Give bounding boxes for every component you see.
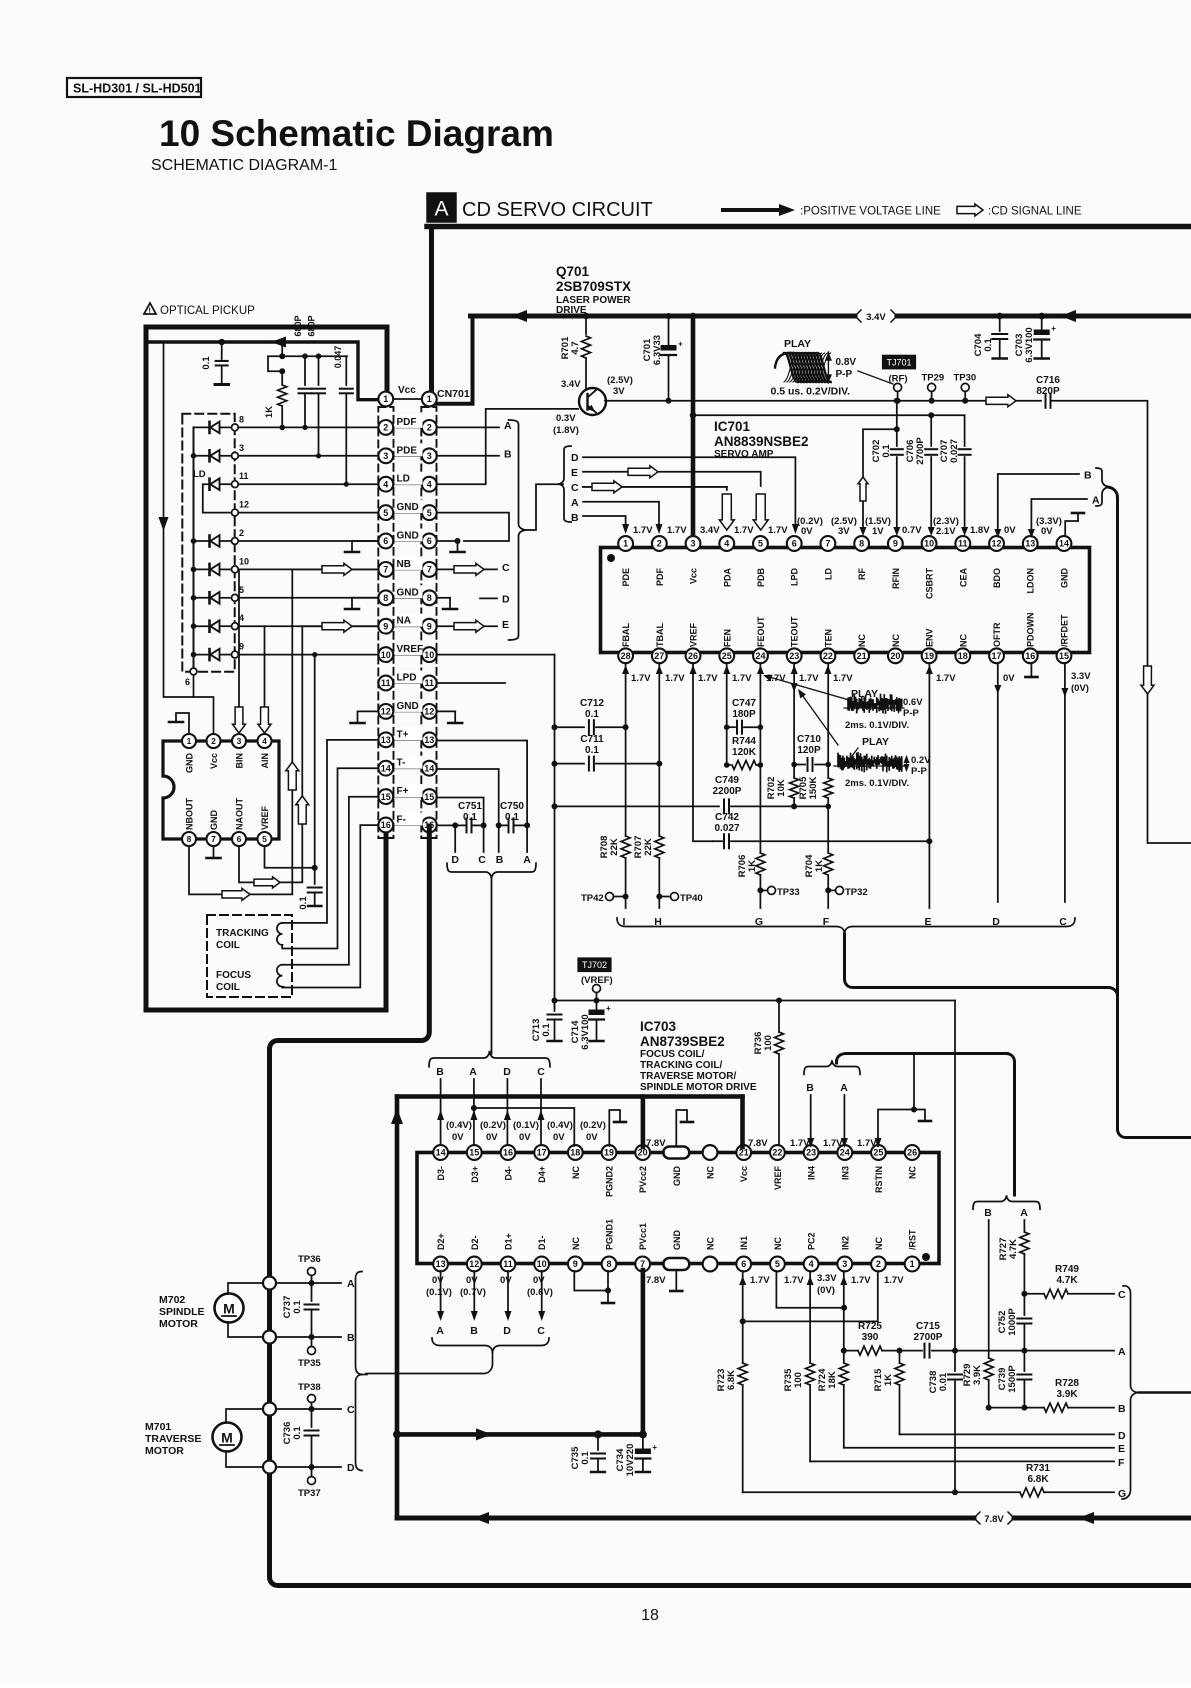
wire diode row 4 to CN701	[191, 613, 379, 632]
svg-text:0V: 0V	[466, 1275, 478, 1286]
ic pd pin 6 NAOUT	[232, 798, 246, 846]
test point TP33	[760, 886, 799, 898]
wire NB row left	[292, 568, 378, 570]
svg-text:12: 12	[381, 707, 391, 717]
svg-text:Vcc: Vcc	[689, 568, 699, 584]
wire CN701 pin12 GND left + ground	[351, 711, 379, 723]
ic IC701 pin 19 ENV	[922, 628, 937, 663]
terminal RF	[889, 374, 908, 401]
svg-text:P-P: P-P	[911, 766, 928, 777]
svg-text:0.1: 0.1	[292, 1426, 303, 1440]
capacitor 680P a	[293, 315, 312, 430]
svg-text:16: 16	[1025, 651, 1035, 661]
svg-text:26: 26	[688, 651, 698, 661]
wire F+ right down to C tap	[437, 798, 484, 826]
svg-text:Vcc: Vcc	[209, 753, 219, 769]
connector CN701 dashed outline right	[421, 407, 436, 838]
svg-text:IN1: IN1	[739, 1236, 749, 1250]
svg-text:SPINDLE MOTOR DRIVE: SPINDLE MOTOR DRIVE	[640, 1082, 757, 1093]
svg-text:0.8V: 0.8V	[836, 357, 857, 368]
motor M701 label	[145, 1421, 201, 1457]
svg-text:5: 5	[758, 539, 763, 549]
svg-text:B: B	[347, 1332, 355, 1344]
wire F- row right	[437, 822, 467, 828]
wire A column R727	[1023, 1220, 1025, 1232]
svg-text:11: 11	[239, 471, 249, 481]
svg-text:19: 19	[924, 651, 934, 661]
cd signal arrow NA right	[454, 620, 484, 632]
svg-text:TP36: TP36	[298, 1254, 321, 1265]
brace DCBA to bundle	[447, 863, 536, 1054]
svg-text:T-: T-	[397, 758, 406, 769]
title 10 Schematic Diagram	[159, 113, 554, 154]
svg-text:NC: NC	[706, 1166, 716, 1179]
connector CN701 dashed outline left	[378, 407, 393, 838]
ic IC701 pin 6 LPD	[787, 536, 802, 586]
wire 3.4V rail	[471, 314, 1191, 319]
svg-text:D4+: D4+	[537, 1166, 547, 1183]
connector CN701 pin 4 row	[378, 472, 436, 492]
resistor R728 3.9K	[989, 1378, 1114, 1412]
wire T- left to tracking coil bottom	[282, 768, 378, 948]
capacitor C751 0.1	[458, 801, 487, 832]
svg-text:Vcc: Vcc	[739, 1166, 749, 1182]
svg-text:A: A	[1118, 1346, 1126, 1358]
ic pd pin 8 NBOUT	[182, 798, 196, 846]
svg-text:0.5 us. 0.2V/DIV.: 0.5 us. 0.2V/DIV.	[771, 386, 851, 398]
svg-text:0.1: 0.1	[201, 356, 212, 370]
ic IC701 pin 5 PDB	[753, 536, 768, 587]
cd signal arrow NAOUT	[254, 877, 280, 888]
ic photodiode amplifier outline	[163, 741, 279, 839]
label IC703 bottom voltages	[426, 1273, 904, 1298]
svg-text:NC: NC	[874, 1237, 884, 1250]
svg-text:2700P: 2700P	[915, 437, 926, 465]
svg-text:3.9K: 3.9K	[1056, 1389, 1078, 1400]
node B tap wire	[496, 825, 504, 866]
svg-text:VREF: VREF	[260, 805, 270, 830]
svg-text:7.8V: 7.8V	[748, 1138, 768, 1149]
node B right of CN701	[437, 449, 513, 461]
svg-text:180P: 180P	[732, 709, 756, 720]
ic IC701 pin 15 /RFDET	[1057, 614, 1072, 663]
wire E net right	[844, 1443, 1125, 1455]
svg-text:FOCUS: FOCUS	[216, 970, 251, 981]
wire diode row 9 to CN701	[191, 642, 379, 661]
wire D net right	[900, 1430, 1127, 1442]
svg-text:PGND1: PGND1	[605, 1219, 615, 1250]
svg-text:B: B	[496, 854, 504, 866]
svg-text:AN8839NSBE2: AN8839NSBE2	[714, 434, 809, 449]
svg-text:14: 14	[424, 763, 434, 773]
node A right of CN701	[437, 420, 513, 432]
svg-text:TP32: TP32	[845, 887, 868, 898]
svg-text:GND: GND	[397, 701, 419, 712]
svg-text:C: C	[571, 482, 579, 494]
svg-text:7.8V: 7.8V	[646, 1138, 666, 1149]
svg-text:0.2V: 0.2V	[911, 755, 931, 766]
connector CN701 pin 6 row	[378, 529, 436, 549]
test point TP38	[298, 1382, 321, 1412]
svg-text:GND: GND	[397, 531, 419, 542]
capacitor C739 1500P	[997, 1351, 1031, 1411]
tracking coil	[216, 923, 282, 951]
wire CN701 pin6 GND left + ground	[345, 541, 379, 552]
ic IC703 top pin 22 VREF	[770, 1145, 785, 1190]
svg-text::POSITIVE VOLTAGE LINE: :POSITIVE VOLTAGE LINE	[800, 206, 941, 218]
arrow into IC701 pin 23	[791, 665, 798, 674]
arrow on 7.8V rail left	[473, 1512, 489, 1524]
svg-text:5: 5	[383, 508, 388, 518]
ic IC701 pin 13 LDON	[1023, 536, 1038, 593]
label 7.8V rail	[974, 1512, 1014, 1525]
wire T+ right down to A tap	[437, 741, 528, 826]
svg-text:M702: M702	[159, 1294, 185, 1306]
brace motor ABCD	[356, 1272, 368, 1471]
ic IC701 pin 9 RFIN	[888, 536, 903, 589]
wire T+ left to tracking coil top	[282, 740, 378, 923]
label IC703 top voltages	[446, 1120, 877, 1149]
svg-text:NC: NC	[706, 1237, 716, 1250]
svg-text:C: C	[478, 854, 486, 866]
svg-text:OFTR: OFTR	[992, 622, 1002, 647]
svg-text:1.7V: 1.7V	[667, 525, 687, 536]
wire B row M702	[276, 1332, 355, 1344]
svg-text:3.9K: 3.9K	[972, 1365, 983, 1385]
ic IC703 bottom pin 3 IN2	[837, 1236, 852, 1271]
capacitor C714 6.3V100	[570, 1001, 611, 1050]
resistor R735 100	[783, 1363, 815, 1461]
svg-text:1.7V: 1.7V	[732, 673, 752, 684]
wire CN701 pin6 GND right + ground	[437, 538, 465, 552]
svg-text:18K: 18K	[827, 1371, 838, 1389]
svg-text:3: 3	[427, 451, 432, 461]
svg-text:3V: 3V	[838, 526, 850, 537]
svg-text:+: +	[1051, 324, 1056, 333]
cd signal arrow NBOUT	[222, 888, 250, 900]
connector CN701 pin 3 row	[378, 443, 436, 463]
wire VREF bus vertical	[552, 655, 558, 1008]
ic IC701 pin 18 NC	[955, 634, 970, 664]
label LD	[193, 469, 206, 480]
svg-text:2700P: 2700P	[914, 1332, 943, 1343]
svg-text:0V: 0V	[500, 1275, 512, 1286]
svg-text:11: 11	[503, 1259, 513, 1269]
svg-text:22: 22	[772, 1148, 782, 1158]
capacitor C734 10V220	[615, 1434, 657, 1476]
ic IC701 pin 21 NC	[854, 634, 869, 664]
svg-text:12: 12	[469, 1259, 479, 1269]
svg-text:22K: 22K	[643, 838, 654, 856]
svg-text:NC: NC	[891, 634, 901, 647]
node C above IC703	[537, 1066, 545, 1148]
svg-text:150K: 150K	[808, 777, 819, 800]
svg-text:B: B	[436, 1066, 444, 1078]
label Q701 voltages	[553, 375, 633, 436]
connector CN701 pin 1 row	[378, 385, 436, 406]
test point TP30	[954, 373, 977, 404]
wire F- left to focus coil bottom	[282, 825, 378, 987]
node G net right	[1118, 1488, 1126, 1500]
svg-text:8: 8	[859, 539, 864, 549]
svg-text:0.1: 0.1	[983, 338, 994, 352]
transistor Q701 label	[556, 264, 631, 316]
svg-text:P-P: P-P	[836, 369, 853, 380]
capacitor C752 1000P	[997, 1294, 1031, 1354]
node I	[623, 916, 626, 928]
waveform PLAY eye pattern	[775, 338, 831, 382]
wire B column R729	[988, 1220, 990, 1358]
wire diode row 3 to CN701	[191, 443, 379, 462]
svg-text:PLAY: PLAY	[862, 736, 889, 748]
svg-text:C710: C710	[797, 734, 821, 745]
capacitor C712 0.1	[555, 698, 629, 734]
wire D row M701	[276, 1462, 355, 1474]
svg-text:0.1: 0.1	[580, 1451, 591, 1465]
svg-text:R728: R728	[1055, 1378, 1079, 1389]
svg-text:1.7V: 1.7V	[799, 673, 819, 684]
node E right of CN701	[502, 619, 509, 631]
svg-text:VREF: VREF	[689, 622, 699, 647]
svg-text:A: A	[347, 1278, 355, 1290]
connector CN701 pin 9 row	[378, 614, 436, 634]
svg-text:10K: 10K	[776, 779, 787, 797]
cd signal arrow into AIN	[258, 626, 271, 733]
svg-text:9: 9	[427, 621, 432, 631]
label CN701	[437, 388, 470, 400]
svg-text::CD SIGNAL LINE: :CD SIGNAL LINE	[988, 206, 1082, 218]
svg-text:0V: 0V	[432, 1275, 444, 1286]
svg-text:CSBRT: CSBRT	[925, 567, 935, 599]
svg-text:TJ701: TJ701	[886, 357, 911, 367]
svg-text:D: D	[503, 1325, 511, 1337]
svg-text:1K: 1K	[883, 1374, 894, 1386]
svg-text:8: 8	[427, 593, 432, 603]
wire VREF row right to bus	[437, 654, 555, 656]
svg-text:NC: NC	[571, 1237, 581, 1250]
wire CN701 pin8 GND left + ground	[345, 598, 379, 609]
svg-text:AIN: AIN	[260, 753, 270, 769]
svg-text:(0.6V): (0.6V)	[527, 1287, 553, 1298]
node A tap wire	[523, 825, 531, 866]
node C net right	[1118, 1289, 1126, 1301]
wire IC703 pin6 IN1 column	[739, 1271, 746, 1363]
svg-text:SCHEMATIC DIAGRAM-1: SCHEMATIC DIAGRAM-1	[151, 157, 337, 174]
svg-text:D1+: D1+	[503, 1233, 513, 1250]
wire IC701 pin16 PDOWN gnd	[1025, 663, 1037, 677]
svg-text:TP40: TP40	[680, 893, 703, 904]
wire left servo border from A box to CN701	[429, 227, 434, 397]
svg-text:E: E	[1118, 1443, 1125, 1455]
svg-text:GND: GND	[672, 1166, 682, 1187]
svg-text:1.7V: 1.7V	[851, 1275, 871, 1286]
node F	[823, 916, 830, 928]
svg-text:1V: 1V	[872, 526, 884, 537]
connector CN701 pin 13 row	[378, 727, 436, 747]
ic IC701 pin 22 TEN	[821, 629, 836, 663]
ic pd pin 1 GND	[182, 734, 196, 773]
wire G net left part	[743, 1491, 1020, 1493]
svg-text:0.027: 0.027	[714, 823, 739, 834]
svg-text:10: 10	[537, 1259, 547, 1269]
svg-text:TEN: TEN	[823, 629, 833, 647]
svg-text:COIL: COIL	[216, 940, 240, 951]
svg-text:C742: C742	[715, 812, 739, 823]
svg-text:(0.2V): (0.2V)	[580, 1120, 606, 1131]
svg-text:C750: C750	[500, 801, 524, 812]
svg-text:16: 16	[381, 820, 391, 830]
svg-text:15: 15	[424, 792, 434, 802]
svg-text:C: C	[537, 1066, 545, 1078]
svg-text:1.7V: 1.7V	[734, 525, 754, 536]
svg-text:LDON: LDON	[1026, 568, 1036, 594]
svg-text:TP38: TP38	[298, 1382, 321, 1393]
svg-text:0.1: 0.1	[541, 1023, 552, 1037]
svg-text:1: 1	[187, 736, 192, 746]
capacitor C738 0.01	[928, 1351, 962, 1496]
svg-text:NB: NB	[397, 559, 411, 570]
wire IC701 pin25 FEN column	[726, 663, 728, 765]
wire NAOUT down and right	[239, 626, 302, 882]
wire IC703 pin19 PGND2 gnd	[609, 1110, 626, 1146]
svg-text:4.7: 4.7	[570, 341, 581, 354]
ic IC701 pin 7 LD	[821, 536, 836, 580]
svg-text:13: 13	[424, 735, 434, 745]
ic IC701 pin 27 TBAL	[652, 623, 667, 664]
svg-text:26: 26	[907, 1148, 917, 1158]
svg-text:LPD: LPD	[397, 673, 417, 684]
svg-text:13: 13	[436, 1259, 446, 1269]
arrow on 3.4V rail left	[511, 310, 527, 322]
svg-text:C751: C751	[458, 801, 482, 812]
transistor Q701	[579, 388, 606, 415]
node B to IC701 pin1	[571, 512, 629, 534]
svg-text:GND: GND	[397, 502, 419, 513]
connector CN701 pin 2 row	[378, 415, 436, 435]
test point TP40	[659, 893, 702, 905]
wire diode row 10 to CN701	[191, 556, 379, 575]
svg-text:SL-HD301 / SL-HD501: SL-HD301 / SL-HD501	[73, 82, 202, 96]
cd signal arrow NB right	[454, 563, 484, 575]
resistor R744 120K	[724, 736, 761, 770]
svg-text:6.3V33: 6.3V33	[652, 335, 663, 365]
svg-text:1.7V: 1.7V	[698, 673, 718, 684]
wire IC701 pin24 FEOUT column	[758, 663, 764, 853]
svg-text:PC2: PC2	[807, 1232, 817, 1250]
resistor R702 10K	[766, 777, 799, 810]
wire IC703 GND pill bottom gnd	[670, 1270, 682, 1291]
junction D M701	[263, 1461, 276, 1474]
svg-text:19: 19	[604, 1148, 614, 1158]
ic IC701 pin 10 CSBRT	[922, 536, 937, 599]
svg-text:28: 28	[621, 651, 631, 661]
svg-text:0.1: 0.1	[292, 1300, 303, 1314]
svg-text:B: B	[504, 449, 512, 461]
svg-text:22: 22	[823, 651, 833, 661]
ic IC703 bottom pin 12 D2-	[467, 1235, 482, 1271]
wire IC701 pin12 BDO to B	[994, 470, 1092, 539]
svg-text:1K: 1K	[814, 860, 825, 872]
svg-text:A: A	[1092, 495, 1100, 507]
motor M702 label	[159, 1294, 205, 1330]
svg-text:1K: 1K	[747, 860, 758, 872]
svg-text:8: 8	[187, 834, 192, 844]
ic IC701 pin 24 FEOUT	[753, 616, 768, 663]
svg-text:R749: R749	[1055, 1264, 1079, 1275]
jumper TJ702	[578, 958, 611, 972]
ic IC703 body	[417, 1153, 939, 1264]
svg-text:3.3V: 3.3V	[1071, 671, 1091, 682]
svg-text:3V: 3V	[613, 386, 625, 397]
svg-text:2: 2	[657, 539, 662, 549]
svg-text:DRIVE: DRIVE	[556, 305, 587, 316]
wire TJ702 line right	[555, 998, 956, 1004]
svg-text:RFIN: RFIN	[891, 568, 901, 589]
svg-text:4: 4	[262, 736, 267, 746]
node C to IC701 pin4	[571, 482, 727, 494]
svg-text:1.8V: 1.8V	[970, 525, 990, 536]
wire A column tie to pin18	[471, 1105, 574, 1146]
cd signal arrow E	[628, 466, 658, 478]
connector CN701 pin 11 row	[378, 671, 436, 691]
svg-text:2ms. 0.1V/DIV.: 2ms. 0.1V/DIV.	[845, 778, 909, 789]
svg-text:0.7V: 0.7V	[902, 525, 922, 536]
svg-text:0.1: 0.1	[585, 709, 599, 720]
capacitor C701 6.3V33	[642, 313, 683, 404]
svg-text:11: 11	[425, 678, 435, 688]
wire bundle IHGFEDC to right bus	[845, 934, 1118, 996]
ic IC703 top pin 19 PGND2	[602, 1145, 617, 1197]
wire CN701 pin5 GND right	[437, 513, 510, 541]
svg-text:1500P: 1500P	[1007, 1365, 1018, 1393]
wire IC703 pin10 down to C	[537, 1271, 545, 1337]
ic IC703 bottom pin 11 D1+	[501, 1233, 516, 1271]
wire diode common bus	[193, 427, 195, 668]
cd signal arrow into pin4	[719, 494, 734, 530]
svg-text:3: 3	[239, 443, 244, 453]
arrow into IC701 pin19	[926, 665, 933, 674]
svg-text:B: B	[470, 1325, 478, 1337]
svg-text:C716: C716	[1036, 375, 1060, 386]
diode array dashed box	[182, 414, 234, 672]
capacitor 0.047	[333, 346, 353, 487]
resistor 1K	[264, 342, 287, 430]
wire IC701 pin22 TEN column	[825, 663, 831, 853]
ic IC701 pin 11 CEA	[955, 536, 970, 587]
svg-text:C: C	[502, 562, 510, 574]
svg-text:0.6V: 0.6V	[903, 697, 923, 708]
svg-text:25: 25	[873, 1148, 883, 1158]
ic IC703 bottom pin 1 /RST	[905, 1229, 920, 1271]
ic IC701 pin 8 RF	[854, 536, 869, 580]
svg-text:(0.1V): (0.1V)	[513, 1120, 539, 1131]
resistor R701 4.7	[560, 313, 591, 389]
svg-text:6.8K: 6.8K	[1027, 1474, 1049, 1485]
wire IC701 pin28 FBAL column	[625, 663, 627, 836]
svg-text:NC: NC	[857, 634, 867, 647]
ic IC703 top pin 20 PVcc2	[635, 1145, 650, 1193]
svg-text:IC703: IC703	[640, 1019, 677, 1034]
svg-text:22K: 22K	[609, 838, 620, 856]
svg-text:120P: 120P	[797, 745, 821, 756]
ic IC703 bottom pin 13 D2+	[433, 1233, 448, 1271]
svg-text:6: 6	[185, 677, 190, 687]
resistor R731 6.8K	[1020, 1463, 1114, 1497]
svg-text:TP35: TP35	[298, 1358, 321, 1369]
wire diode row 12 to CN701	[203, 500, 379, 516]
svg-text:1.7V: 1.7V	[936, 673, 956, 684]
svg-text:6: 6	[792, 539, 797, 549]
